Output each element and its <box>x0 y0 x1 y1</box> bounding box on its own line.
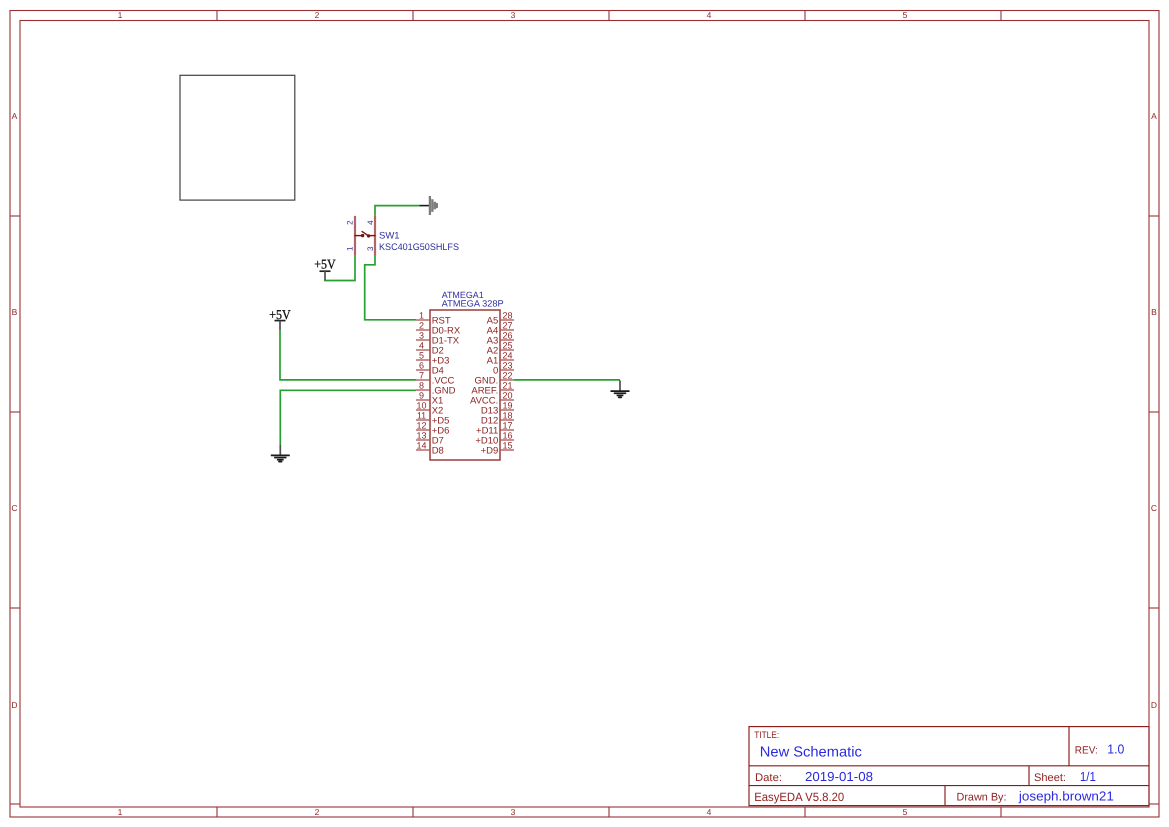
wire: SW1 pin 3 to ATMEGA1 pin 1 (RST net) <box>365 256 416 320</box>
svg-text:3: 3 <box>419 331 424 341</box>
ATMEGA1 pin 11 (+D5) <box>416 411 449 427</box>
svg-text:+5V: +5V <box>269 307 291 322</box>
svg-text:2019-01-08: 2019-01-08 <box>805 769 873 784</box>
ATMEGA1 pin 8 (GND) <box>416 381 456 397</box>
svg-text:A: A <box>1151 111 1157 121</box>
svg-text:26: 26 <box>502 331 512 341</box>
svg-text:1: 1 <box>118 10 123 20</box>
power flag +5V (net +5V) at SW1 <box>314 256 336 280</box>
ATMEGA1 pin 21 (AREF) <box>471 381 514 397</box>
svg-text:TITLE:: TITLE: <box>754 730 779 741</box>
svg-text:8: 8 <box>419 381 424 391</box>
svg-text:2: 2 <box>315 10 320 20</box>
ATMEGA1 pin 27 (A4) <box>487 321 514 337</box>
svg-text:4: 4 <box>419 341 424 351</box>
ATMEGA1 pin 6 (D4) <box>416 361 444 377</box>
power flag +5V (net +5V) at ATMEGA1 VCC <box>269 307 291 331</box>
svg-text:C: C <box>1151 503 1157 513</box>
ATMEGA1 pin 20 (AVCC) <box>470 391 514 407</box>
svg-text:joseph.brown21: joseph.brown21 <box>1018 789 1114 804</box>
svg-text:1.0: 1.0 <box>1107 741 1124 756</box>
svg-text:27: 27 <box>502 321 512 331</box>
svg-text:21: 21 <box>502 381 512 391</box>
svg-text:D: D <box>1151 700 1157 710</box>
svg-text:9: 9 <box>419 391 424 401</box>
ATMEGA1 pin 26 (A3) <box>487 331 514 347</box>
ATMEGA1 pin 23 (0) <box>493 361 514 377</box>
ATMEGA1 pin 28 (A5) <box>487 311 514 327</box>
svg-text:ATMEGA 328P: ATMEGA 328P <box>442 299 504 309</box>
svg-text:20: 20 <box>502 391 512 401</box>
ATMEGA1 pin 15 (+D9) <box>481 441 514 457</box>
ATMEGA1 pin 24 (A1) <box>487 351 514 367</box>
wire: +5V flag to SW1 pin 1 <box>325 256 355 281</box>
svg-text:23: 23 <box>502 361 512 371</box>
svg-text:SW1: SW1 <box>379 231 400 242</box>
ground (GND) at ATMEGA1 pin 22 <box>611 380 630 397</box>
svg-text:B: B <box>1151 307 1157 317</box>
ATMEGA1 pin 3 (D1-TX) <box>416 331 460 347</box>
ATMEGA1 pin 5 (+D3) <box>416 351 449 367</box>
svg-text:3: 3 <box>511 807 516 817</box>
svg-text:6: 6 <box>419 361 424 371</box>
ATMEGA1 pin 14 (D8) <box>416 441 444 457</box>
svg-text:New Schematic: New Schematic <box>760 745 862 761</box>
svg-text:Sheet:: Sheet: <box>1034 772 1066 784</box>
wire: ATMEGA1 pin 22 GND to ground <box>514 379 620 381</box>
svg-text:12: 12 <box>416 421 426 431</box>
svg-text:C: C <box>11 503 17 513</box>
ATMEGA1 pin 22 (GND) <box>475 371 514 387</box>
svg-text:1/1: 1/1 <box>1080 769 1096 784</box>
svg-text:25: 25 <box>502 341 512 351</box>
svg-text:+5V: +5V <box>314 256 336 271</box>
wire: +5V flag to ATMEGA1 pin 7 VCC <box>280 330 416 380</box>
svg-text:1: 1 <box>419 311 424 321</box>
svg-text:18: 18 <box>502 411 512 421</box>
ATMEGA1 pin 18 (D12) <box>481 411 514 427</box>
svg-text:11: 11 <box>417 411 426 421</box>
svg-text:3: 3 <box>511 10 516 20</box>
svg-text:22: 22 <box>502 371 512 381</box>
svg-text:7: 7 <box>419 371 424 381</box>
wire: ATMEGA1 pin 8 GND to ground <box>280 390 416 445</box>
svg-text:19: 19 <box>502 401 512 411</box>
svg-text:KSC401G50SHLFS: KSC401G50SHLFS <box>379 242 459 253</box>
ATMEGA1 pin 10 (X2) <box>416 401 443 417</box>
svg-text:REV:: REV: <box>1075 744 1098 756</box>
svg-text:2: 2 <box>315 807 320 817</box>
svg-text:15: 15 <box>502 441 512 451</box>
ATMEGA1 pin 7 (VCC) <box>416 371 455 387</box>
ground (GND) at SW1 pin 4, rotated right <box>419 196 436 215</box>
svg-text:4: 4 <box>366 220 375 225</box>
ATMEGA1 pin 1 (RST) <box>416 311 451 327</box>
ATMEGA1 pin 9 (X1) <box>416 391 443 407</box>
svg-text:B: B <box>12 307 18 317</box>
ATMEGA1 pin 19 (D13) <box>481 401 514 417</box>
svg-text:10: 10 <box>416 401 426 411</box>
rectangle shape <box>180 75 295 200</box>
ATMEGA1 pin 12 (+D6) <box>416 421 449 437</box>
svg-text:5: 5 <box>419 351 424 361</box>
svg-text:EasyEDA V5.8.20: EasyEDA V5.8.20 <box>754 790 844 804</box>
ATMEGA1 pin 4 (D2) <box>416 341 444 357</box>
svg-text:1: 1 <box>118 807 123 817</box>
IC ATMEGA1 body <box>430 310 500 460</box>
ATMEGA1 pin 13 (D7) <box>416 431 444 447</box>
svg-text:Drawn By:: Drawn By: <box>957 792 1007 804</box>
svg-text:2: 2 <box>346 220 355 225</box>
ATMEGA1 pin 25 (A2) <box>487 341 514 357</box>
svg-text:+D9: +D9 <box>481 445 499 456</box>
svg-text:13: 13 <box>416 431 426 441</box>
svg-text:2: 2 <box>419 321 424 331</box>
ATMEGA1 pin 17 (+D11) <box>476 421 514 437</box>
svg-text:16: 16 <box>502 431 512 441</box>
svg-text:17: 17 <box>502 421 512 431</box>
svg-text:28: 28 <box>502 311 512 321</box>
ATMEGA1 pin 16 (+D10) <box>475 431 514 447</box>
svg-text:5: 5 <box>903 10 908 20</box>
svg-text:4: 4 <box>707 807 712 817</box>
wire: SW1 pin 4 to ground <box>375 206 419 216</box>
svg-text:4: 4 <box>707 10 712 20</box>
svg-text:A: A <box>12 111 18 121</box>
svg-text:Date:: Date: <box>755 772 782 784</box>
ATMEGA1 pin 2 (D0-RX) <box>416 321 461 337</box>
svg-text:D8: D8 <box>432 445 444 456</box>
svg-text:3: 3 <box>366 246 375 251</box>
svg-text:24: 24 <box>502 351 512 361</box>
switch SW1 body <box>354 216 375 256</box>
ground (GND) at ATMEGA1 pin 8 <box>271 445 290 462</box>
svg-text:14: 14 <box>416 441 426 451</box>
svg-text:5: 5 <box>903 807 908 817</box>
svg-text:D: D <box>11 700 17 710</box>
svg-text:1: 1 <box>346 246 355 251</box>
